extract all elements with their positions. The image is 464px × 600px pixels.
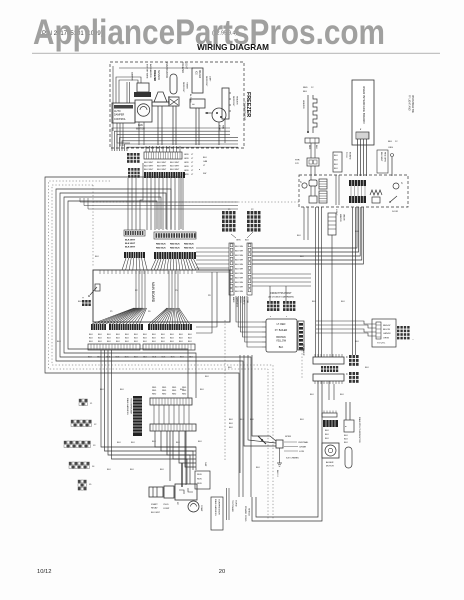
right strip right pins (247, 243, 252, 295)
vertical comb strip (133, 396, 142, 436)
dispenser connector box (372, 319, 396, 347)
svg-text:BLK: BLK (180, 357, 184, 359)
connector block C (124, 230, 145, 236)
svg-text:BLK: BLK (176, 442, 180, 444)
svg-text:BLU/W: BLU/W (383, 329, 391, 331)
svg-text:CONTROL: CONTROL (114, 118, 126, 121)
svg-text:CAB: CAB (203, 160, 208, 163)
legend right comb (298, 321, 304, 350)
svg-text:BLK WHT: BLK WHT (380, 152, 382, 162)
svg-text:RED/W: RED/W (383, 325, 391, 327)
board fan-in left (92, 308, 134, 324)
dispenser switch 2 (390, 196, 397, 202)
svg-text:MAIN HARNESS: MAIN HARNESS (214, 499, 217, 516)
svg-text:FF LIGHT AND: FF LIGHT AND (408, 95, 411, 111)
wire fan down (138, 122, 140, 145)
dispenser mid wires (335, 175, 337, 205)
svg-text:GRN: GRN (184, 154, 189, 156)
svg-text:RED: RED (172, 387, 177, 389)
board connector grid J5 (78, 480, 80, 483)
svg-text:BLK: BLK (143, 338, 147, 340)
dispenser wire pair (310, 186, 312, 196)
svg-text:BLK: BLK (107, 469, 111, 471)
wire bar drops (256, 381, 318, 517)
svg-text:BLK: BLK (57, 341, 61, 343)
svg-text:BLK: BLK (198, 441, 202, 443)
svg-text:BLK WHT: BLK WHT (125, 247, 136, 249)
svg-text:BLK WH: BLK WH (235, 246, 243, 248)
svg-text:RED: RED (152, 387, 157, 389)
wire fanout D (151, 259, 156, 270)
svg-text:BLK: BLK (98, 341, 102, 343)
svg-text:DISPENSER SW: DISPENSER SW (411, 95, 413, 113)
svg-text:BLK: BLK (189, 357, 193, 359)
svg-text:RED: RED (303, 87, 308, 89)
wire heater down (224, 119, 226, 143)
svg-text:BLK: BLK (334, 168, 338, 170)
svg-text:RED: RED (308, 145, 310, 150)
ice maker connector (190, 99, 205, 108)
svg-text:BLK: BLK (152, 341, 156, 343)
svg-text:RED: RED (172, 390, 177, 392)
svg-text:BLK: BLK (228, 367, 232, 369)
svg-text:POWER CORD: POWER CORD (244, 506, 246, 522)
svg-text:TO UTIL: TO UTIL (377, 343, 386, 345)
svg-text:BLK: BLK (89, 338, 93, 340)
svg-text:BLK: BLK (188, 341, 192, 343)
svg-text:TO DISPENSER: TO DISPENSER (130, 398, 132, 415)
svg-text:BLK: BLK (310, 394, 314, 396)
defrost thermostat (154, 92, 167, 102)
fresh food boundary dashed inner (52, 185, 273, 520)
note grid 2 (283, 301, 286, 304)
svg-text:START: START (151, 503, 158, 506)
svg-text:BLK: BLK (256, 467, 260, 469)
svg-text:BLK: BLK (340, 394, 344, 396)
svg-text:GRN: GRN (184, 162, 189, 164)
board bottom strip G (88, 344, 140, 350)
svg-text:HTR: HTR (295, 160, 300, 162)
svg-text:BLK: BLK (161, 341, 165, 343)
svg-text:USER INTERFACE BOARD: USER INTERFACE BOARD (362, 86, 366, 124)
svg-text:VALVE: VALVE (343, 214, 346, 221)
svg-text:CHIME: CHIME (299, 447, 307, 449)
svg-text:BLK WH: BLK WH (235, 273, 243, 275)
bar pin grid (321, 366, 323, 369)
svg-text:BLK: BLK (89, 334, 93, 336)
svg-text:RUN: RUN (197, 483, 202, 485)
svg-text:▪▪▪: ▪▪▪ (192, 103, 195, 106)
svg-text:OR/W: OR/W (383, 337, 390, 339)
wire chime feeds (252, 355, 276, 441)
svg-text:▴: ▴ (199, 168, 200, 171)
board connector F (148, 324, 192, 330)
svg-text:BLK WHT: BLK WHT (125, 243, 136, 245)
bar comb right 1 (349, 355, 352, 358)
svg-text:RED: RED (152, 390, 157, 392)
board bottom strip H (143, 344, 195, 350)
svg-text:HEATER: HEATER (236, 96, 239, 105)
right strip left pins (229, 243, 234, 295)
svg-text:GRN: GRN (236, 240, 241, 242)
svg-text:EVAPORATOR: EVAPORATOR (165, 62, 168, 78)
svg-text:BLK: BLK (134, 338, 138, 340)
svg-text:BLK: BLK (161, 334, 165, 336)
svg-text:BLK: BLK (134, 334, 138, 336)
svg-text:BLK: BLK (107, 341, 111, 343)
svg-text:RUN: RUN (197, 474, 202, 476)
svg-text:DEFROST: DEFROST (232, 96, 234, 107)
wire freezer inner loop 2 (119, 80, 138, 103)
svg-text:BLK: BLK (116, 338, 120, 340)
svg-text:DAMPER: DAMPER (114, 114, 125, 117)
svg-text:BLK: BLK (179, 338, 183, 340)
dispenser switch sawtooth (370, 190, 382, 195)
svg-text:FAN: FAN (222, 125, 225, 130)
svg-text:BLK WHT: BLK WHT (151, 512, 161, 514)
bar interconnects (153, 405, 155, 424)
wire bars to compressor (169, 431, 171, 481)
svg-text:BLK WH: BLK WH (235, 269, 243, 271)
svg-text:RED: RED (162, 393, 167, 395)
svg-text:BLK: BLK (152, 357, 156, 359)
svg-text:RED: RED (182, 393, 187, 395)
wire to color box (316, 321, 376, 324)
svg-text:BLK: BLK (334, 159, 338, 161)
svg-text:BOARD: BOARD (349, 152, 352, 160)
svg-text:ORG: ORG (388, 147, 393, 149)
harness pair wires (226, 488, 228, 520)
wire strip wrap lines (196, 272, 217, 327)
wire drop jog (140, 163, 143, 230)
wire heater drop (310, 143, 312, 158)
chime junction (261, 439, 263, 441)
svg-text:BLK: BLK (170, 338, 174, 340)
svg-text:GRN: GRN (184, 174, 189, 176)
board fan-in right (149, 308, 167, 324)
wire mid bus right (80, 201, 238, 203)
svg-text:BLK WH: BLK WH (235, 255, 243, 257)
svg-text:SHIELD: SHIELD (248, 508, 250, 516)
svg-text:MAIN POS THERMISTOR: MAIN POS THERMISTOR (358, 417, 361, 443)
connector bar 2 (313, 374, 344, 381)
svg-text:CORD: CORD (235, 500, 237, 507)
svg-text:COMP: COMP (163, 508, 170, 510)
svg-text:BLK: BLK (325, 434, 329, 436)
ice maker box (192, 68, 203, 93)
svg-text:BLK: BLK (179, 341, 183, 343)
svg-text:MAIN: MAIN (232, 297, 235, 303)
svg-text:YELLOW: YELLOW (276, 340, 287, 343)
svg-text:BLK: BLK (152, 334, 156, 336)
dispenser column connector (323, 420, 338, 427)
svg-text:RELAY: RELAY (151, 507, 158, 510)
run capacitor (195, 471, 210, 489)
svg-text:AUGER: AUGER (326, 461, 334, 464)
auger connector bar (322, 413, 337, 417)
svg-text:BLK: BLK (188, 338, 192, 340)
svg-text:BLK: BLK (171, 357, 175, 359)
svg-text:LIGHT: LIGHT (185, 62, 188, 70)
freezer air damper (137, 83, 149, 92)
svg-text:RED: RED (162, 387, 167, 389)
svg-text:BLK: BLK (344, 438, 348, 440)
header rule (32, 52, 440, 54)
wire board drops (101, 350, 196, 470)
svg-text:BLK: BLK (107, 338, 111, 340)
svg-text:TO POWER: TO POWER (231, 500, 233, 512)
hbar 1 (150, 398, 192, 405)
wire board to strip (196, 247, 229, 249)
svg-text:OVLD: OVLD (163, 504, 169, 506)
main-to-compressor box (211, 497, 223, 530)
svg-text:MOTOR WIRE: MOTOR WIRE (146, 64, 148, 79)
overload protector (175, 484, 197, 500)
wire ice maker down (195, 108, 197, 145)
svg-text:BLK WH: BLK WH (235, 260, 243, 262)
svg-text:BLK: BLK (125, 334, 129, 336)
svg-text:BLK: BLK (134, 357, 138, 359)
note grid 1 (267, 301, 270, 304)
svg-text:BLK: BLK (344, 442, 348, 444)
svg-text:BLK: BLK (325, 430, 329, 432)
svg-text:BLK: BLK (162, 357, 166, 359)
svg-text:AIR DAMPER: AIR DAMPER (149, 64, 152, 78)
svg-text:GRN: GRN (184, 166, 189, 168)
board top pin marks (99, 270, 101, 274)
right grid connector (397, 326, 399, 329)
freezer fan motor (137, 104, 149, 116)
main board box (93, 270, 230, 322)
svg-text:RED: RED (162, 390, 167, 392)
wire light down (172, 106, 174, 145)
defrost heater (222, 88, 229, 119)
svg-text:BLK: BLK (120, 389, 124, 391)
fresh food compartment dashed border (93, 201, 299, 203)
svg-text:RED BLK: RED BLK (184, 244, 194, 246)
svg-text:BLK 12: BLK 12 (276, 470, 278, 477)
svg-text:BLK WHT: BLK WHT (157, 166, 167, 168)
dispenser lamp 2 (393, 183, 399, 189)
wire bus freezer bottom (112, 128, 230, 151)
svg-text:BLK: BLK (170, 341, 174, 343)
connector grid B (127, 153, 130, 156)
grid connector P1 (222, 211, 225, 214)
svg-text:SW: SW (203, 173, 206, 175)
air filter heater (307, 95, 309, 133)
svg-text:RED: RED (152, 393, 157, 395)
board connector E (91, 324, 106, 330)
chime component (276, 440, 283, 448)
wire heater into dispenser (310, 166, 312, 180)
dispenser light (302, 183, 307, 188)
svg-text:COMPARTMENT: COMPARTMENT (243, 101, 246, 121)
svg-text:BLK: BLK (179, 334, 183, 336)
grid leader lines (231, 234, 236, 238)
svg-text:BLK: BLK (116, 341, 120, 343)
svg-text:DAMPER: DAMPER (131, 72, 134, 81)
dispenser relay top (309, 180, 317, 186)
svg-text:BLK: BLK (152, 338, 156, 340)
svg-text:FREEZER: FREEZER (181, 62, 184, 73)
svg-text:BLK: BLK (170, 334, 174, 336)
wire uib drops (357, 139, 359, 176)
svg-text:RED BLK: RED BLK (170, 244, 180, 246)
wire freezer top run (119, 67, 193, 69)
board connector grid J3 (64, 441, 66, 444)
svg-text:BLK WHT: BLK WHT (144, 162, 154, 164)
svg-text:SENSOR: SENSOR (157, 70, 160, 80)
svg-text:ICE: ICE (195, 71, 197, 75)
board connector grid J1 (79, 399, 81, 402)
svg-text:FROM THIS POINT: FROM THIS POINT (270, 292, 292, 295)
svg-text:BLK WHT: BLK WHT (144, 166, 154, 168)
ptc grid (82, 300, 84, 303)
svg-text:BLK: BLK (117, 442, 121, 444)
svg-text:SPKR: SPKR (285, 436, 291, 438)
svg-text:BLK: BLK (95, 256, 99, 258)
right col box (344, 420, 354, 432)
svg-text:BLK: BLK (98, 338, 102, 340)
svg-text:TIMER: TIMER (186, 82, 188, 89)
wire strip risers (145, 146, 147, 152)
svg-text:▪ ▪: ▪ ▪ (82, 298, 84, 300)
svg-text:LT. RED: LT. RED (277, 323, 286, 326)
board connector grid J4 (69, 462, 71, 465)
strip above valve (333, 152, 342, 172)
svg-text:BLK: BLK (161, 338, 165, 340)
svg-text:BLK WHT: BLK WHT (170, 166, 180, 168)
svg-text:BLK: BLK (125, 338, 129, 340)
svg-text:MAIN HARNESS: MAIN HARNESS (126, 398, 129, 415)
svg-text:CENTRAL: CENTRAL (298, 441, 309, 444)
right col capsule (345, 447, 352, 468)
svg-text:MAIN BOARD: MAIN BOARD (151, 282, 155, 303)
right col wires (345, 402, 347, 420)
svg-text:BLK: BLK (229, 419, 233, 421)
svg-text:BLK: BLK (131, 442, 135, 444)
svg-text:BLK: BLK (229, 427, 233, 429)
svg-text:BLK: BLK (334, 155, 338, 157)
heater lower connector (307, 158, 319, 166)
svg-text:BLK WH: BLK WH (235, 282, 243, 284)
connector block D (154, 232, 196, 239)
wire note grid stubs (269, 286, 271, 301)
svg-text:DOOR: DOOR (392, 211, 399, 213)
svg-text:BLK: BLK (240, 419, 244, 421)
svg-text:BLK WHT: BLK WHT (125, 240, 136, 242)
svg-text:GRN/W: GRN/W (383, 333, 391, 335)
svg-text:BLK: BLK (134, 341, 138, 343)
svg-text:RED: RED (172, 393, 177, 395)
relay mid box (164, 486, 174, 498)
freezer harness strip (144, 152, 182, 159)
wire right bus 2 (252, 273, 311, 275)
uib connector (356, 132, 369, 139)
svg-text:BLK: BLK (334, 164, 338, 166)
svg-text:RC: RC (176, 502, 178, 506)
wire evap fan down (218, 122, 220, 145)
air damper control box (112, 103, 135, 123)
svg-text:BLK: BLK (107, 334, 111, 336)
svg-text:▪▪: ▪▪ (345, 426, 347, 428)
svg-text:FT. BAILER: FT. BAILER (275, 329, 288, 332)
svg-text:MOTOR: MOTOR (326, 466, 334, 468)
svg-text:BLK: BLK (89, 341, 93, 343)
svg-text:BLK: BLK (152, 441, 156, 443)
svg-text:BLK: BLK (245, 240, 249, 242)
svg-text:BLK: BLK (344, 435, 348, 437)
svg-text:BLK: BLK (300, 419, 304, 421)
svg-text:BLK: BLK (229, 423, 233, 425)
svg-text:BLK: BLK (341, 301, 345, 303)
svg-text:BLK: BLK (279, 346, 284, 349)
svg-text:BLK: BLK (355, 231, 359, 233)
legend left pins (262, 321, 266, 323)
svg-text:BLK: BLK (355, 341, 359, 343)
connector grid C (128, 168, 130, 171)
chime ground symbol (279, 448, 281, 463)
wire dispenser drop left (315, 207, 317, 357)
svg-text:BLK: BLK (143, 341, 147, 343)
svg-text:TO UI: TO UI (345, 152, 347, 158)
wire drop set 1 (127, 178, 129, 230)
svg-text:HEATER: HEATER (302, 100, 305, 109)
auger motor box (322, 443, 339, 458)
uib side connector list (377, 150, 388, 173)
svg-text:BLK: BLK (188, 334, 192, 336)
svg-text:BLK: BLK (100, 389, 104, 391)
svg-text:BLK: BLK (297, 235, 301, 237)
heavy feed wire (181, 463, 183, 487)
svg-text:COMPRESSOR: COMPRESSOR (218, 499, 220, 515)
dispenser comb top (349, 180, 366, 186)
svg-text:DEFROST: DEFROST (205, 76, 207, 87)
svg-text:BLK: BLK (160, 469, 164, 471)
svg-text:—: — (412, 339, 414, 341)
svg-text:BLK WH: BLK WH (235, 264, 243, 266)
dispenser connector stack (319, 179, 327, 189)
fresh food boundary dashed outer (49, 181, 269, 520)
svg-text:BLK: BLK (88, 357, 92, 359)
svg-text:BLK: BLK (303, 91, 308, 93)
svg-text:BLK: BLK (312, 301, 316, 303)
dispenser comb pins (350, 186, 352, 196)
freezer light bulb (170, 74, 177, 94)
svg-text:BLK: BLK (388, 141, 393, 143)
svg-text:GRN: GRN (184, 158, 189, 160)
wire freezer left drop (112, 66, 114, 131)
evap fan wire (205, 112, 212, 114)
water valve (328, 213, 336, 235)
svg-text:12V: 12V (295, 163, 299, 165)
svg-text:BLK: BLK (106, 357, 110, 359)
svg-text:BLK: BLK (143, 357, 147, 359)
svg-text:BLK: BLK (130, 469, 134, 471)
svg-text:GRN: GRN (184, 170, 189, 172)
wire fanout C (122, 258, 126, 270)
grid connector P2 (247, 211, 250, 214)
svg-text:BLK WHT: BLK WHT (157, 169, 167, 171)
svg-text:RED BLK: RED BLK (156, 244, 166, 246)
svg-text:BLK: BLK (365, 367, 369, 369)
hbar 2 (150, 424, 196, 431)
wire damper down (117, 123, 130, 143)
svg-text:BLK: BLK (325, 438, 329, 440)
dispenser connector pins (376, 322, 381, 339)
connector bar 1 (313, 357, 344, 364)
svg-text:BLK: BLK (125, 341, 129, 343)
